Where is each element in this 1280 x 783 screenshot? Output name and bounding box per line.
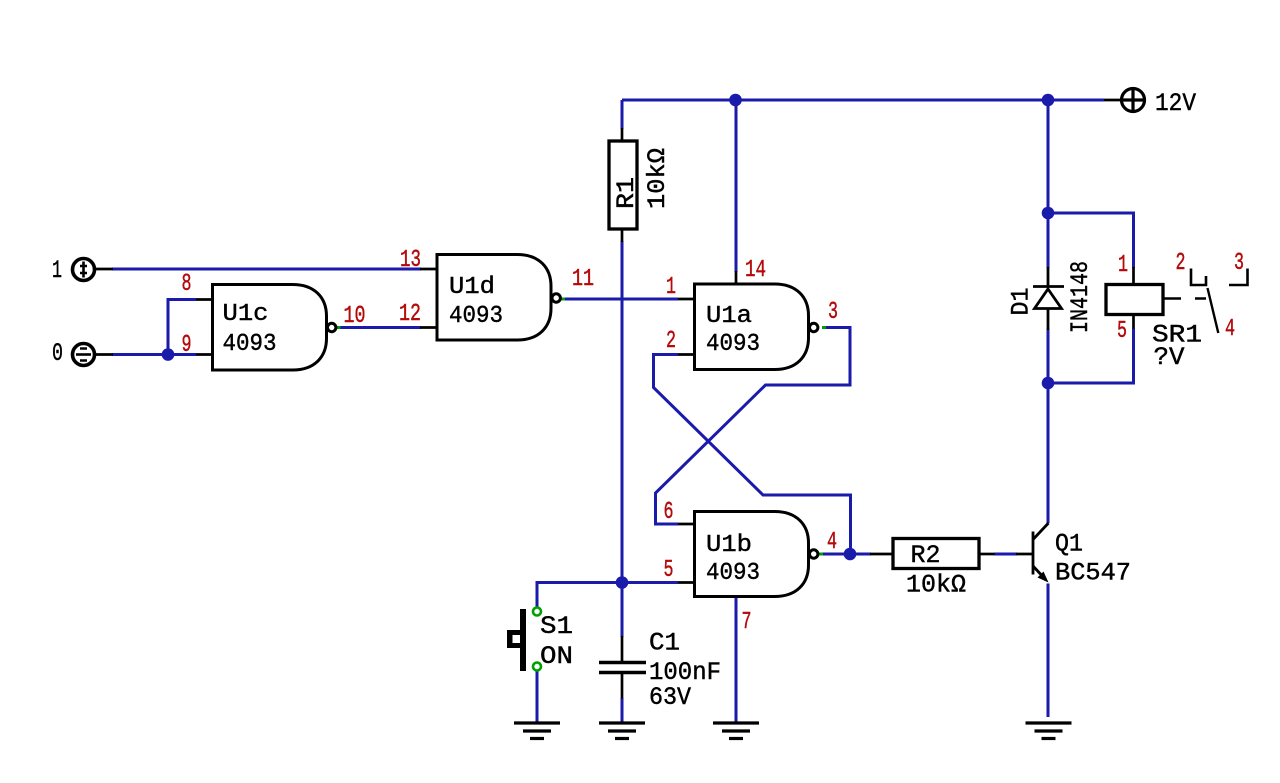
svg-text:?V: ?V xyxy=(1154,343,1185,372)
svg-text:2: 2 xyxy=(1176,250,1186,277)
svg-text:10kΩ: 10kΩ xyxy=(643,148,672,209)
svg-text:9: 9 xyxy=(182,332,192,359)
svg-text:U1b: U1b xyxy=(706,532,752,559)
svg-text:12V: 12V xyxy=(1155,89,1196,118)
svg-text:8: 8 xyxy=(182,271,192,298)
svg-text:4093: 4093 xyxy=(449,303,503,330)
svg-text:1: 1 xyxy=(666,274,676,301)
svg-text:63V: 63V xyxy=(649,683,691,712)
svg-text:4: 4 xyxy=(1225,316,1235,343)
svg-text:4093: 4093 xyxy=(706,331,760,358)
svg-text:2: 2 xyxy=(666,328,676,355)
svg-text:U1c: U1c xyxy=(223,301,269,328)
svg-text:R2: R2 xyxy=(911,541,941,570)
svg-text:10kΩ: 10kΩ xyxy=(906,571,966,600)
svg-text:13: 13 xyxy=(400,247,421,274)
svg-text:0: 0 xyxy=(52,339,63,368)
svg-text:1: 1 xyxy=(1118,252,1128,279)
svg-text:14: 14 xyxy=(745,257,766,284)
svg-text:6: 6 xyxy=(664,499,674,526)
svg-text:C1: C1 xyxy=(649,629,680,658)
svg-text:D1: D1 xyxy=(1007,288,1036,316)
svg-text:7: 7 xyxy=(742,609,752,636)
svg-text:3: 3 xyxy=(1234,250,1244,277)
svg-text:11: 11 xyxy=(572,266,594,293)
svg-text:U1a: U1a xyxy=(706,303,752,330)
svg-text:4093: 4093 xyxy=(706,560,760,587)
svg-text:3: 3 xyxy=(828,299,838,326)
svg-text:12: 12 xyxy=(399,301,421,328)
svg-text:5: 5 xyxy=(664,557,674,584)
svg-text:10: 10 xyxy=(344,303,366,330)
svg-text:Q1: Q1 xyxy=(1055,530,1083,559)
svg-text:5: 5 xyxy=(1117,318,1127,345)
svg-text:4093: 4093 xyxy=(223,331,277,358)
svg-text:BC547: BC547 xyxy=(1055,559,1131,588)
svg-text:U1d: U1d xyxy=(449,274,495,301)
svg-text:ON: ON xyxy=(540,642,573,671)
svg-text:1: 1 xyxy=(52,256,62,285)
svg-text:4: 4 xyxy=(827,529,837,556)
svg-text:S1: S1 xyxy=(540,612,573,641)
svg-text:R1: R1 xyxy=(612,177,641,209)
svg-text:IN4148: IN4148 xyxy=(1066,261,1095,333)
